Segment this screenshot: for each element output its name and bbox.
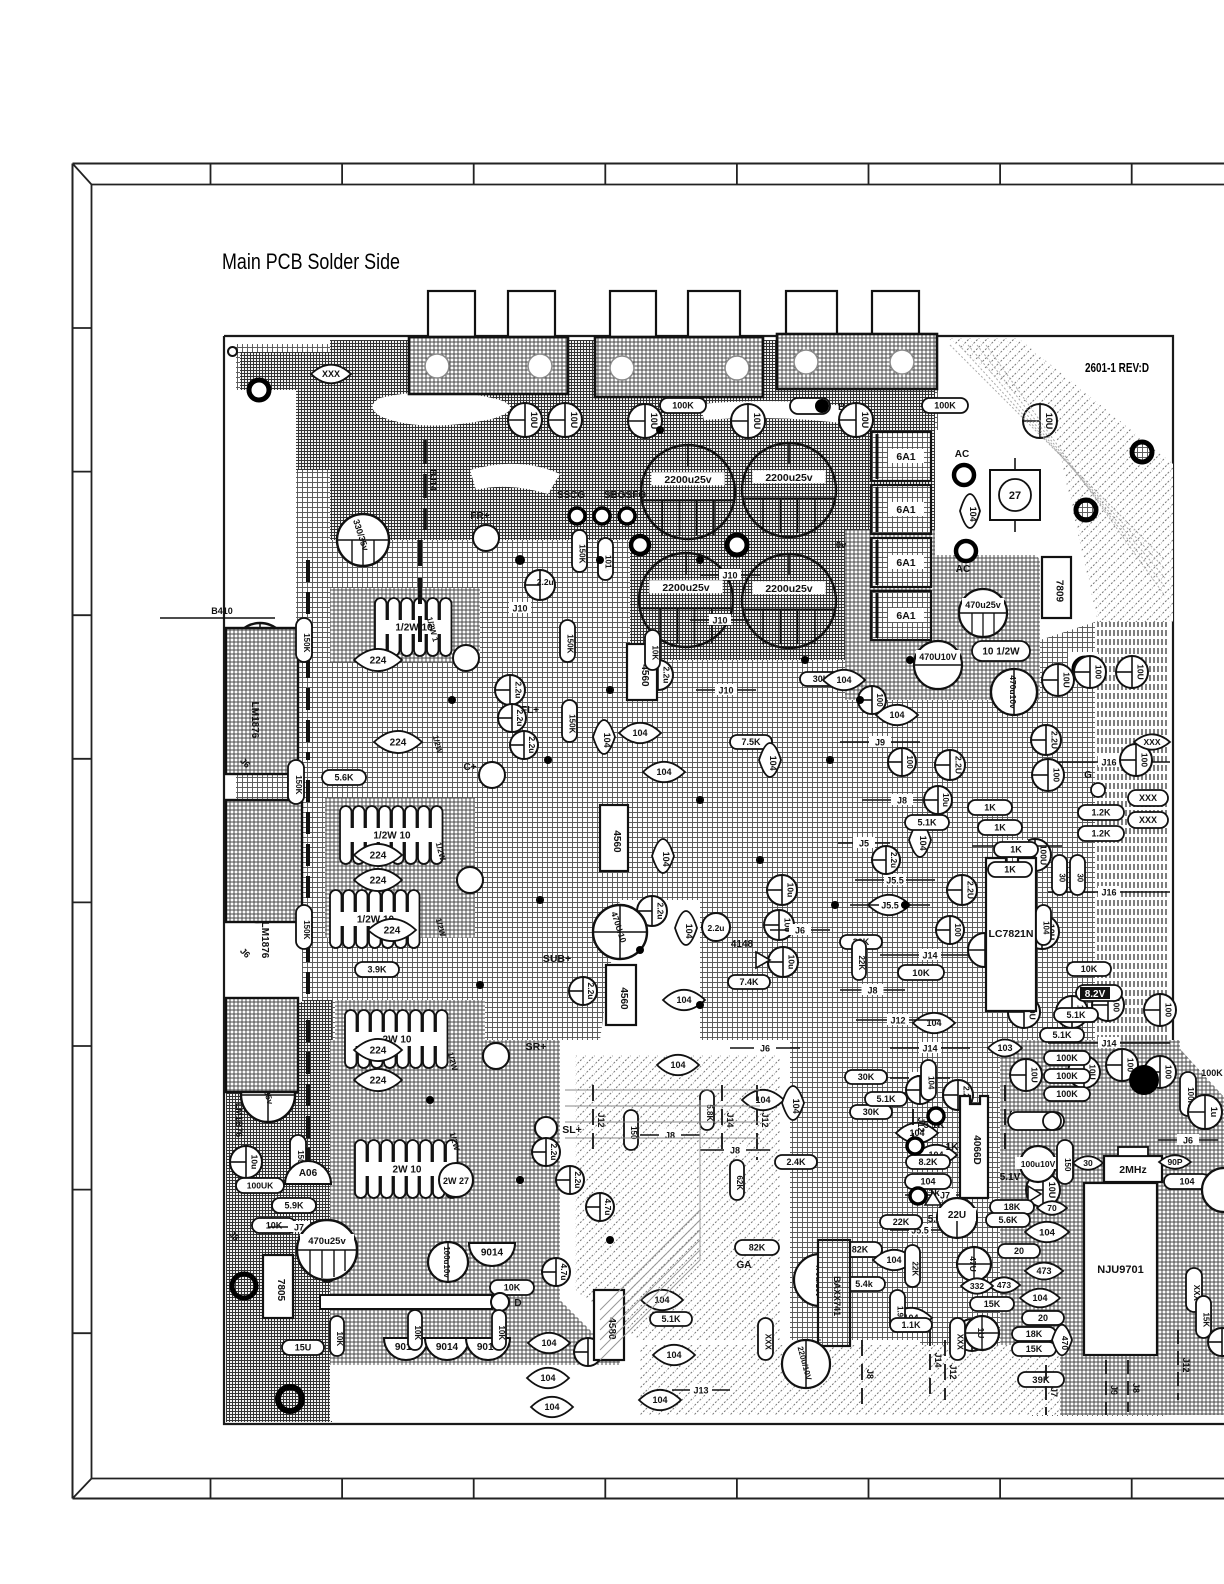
svg-text:4148: 4148	[731, 939, 754, 950]
copper pour bottom mid-left	[330, 1040, 620, 1370]
lens 104 logic c	[1020, 1289, 1060, 1308]
via right area 2	[1076, 500, 1096, 520]
svg-text:J8: J8	[1131, 1383, 1141, 1393]
jumper J12 bottom	[944, 1340, 946, 1400]
capacitor 2200u25v C1	[641, 445, 735, 539]
capacitor 4.7u a	[586, 1193, 614, 1221]
copper pour fuse column	[845, 530, 1040, 700]
jumper J12 vertical b	[912, 1085, 914, 1165]
svg-text:2MHz: 2MHz	[1119, 1164, 1146, 1176]
capacitor 10U top row #4	[731, 404, 765, 438]
svg-text:2.2u: 2.2u	[537, 577, 554, 587]
capacitor 104 #1	[593, 720, 615, 754]
svg-text:100K: 100K	[672, 401, 694, 411]
capacitor 10U right #7	[1008, 996, 1040, 1028]
resistor 10K mid	[645, 630, 660, 670]
svg-text:10U: 10U	[860, 412, 870, 429]
svg-text:AC: AC	[956, 564, 970, 575]
resistor 6.2K a	[730, 1160, 744, 1200]
transistor A06	[285, 1161, 331, 1184]
svg-text:100K: 100K	[1201, 1068, 1223, 1078]
jumper B410 horizontal	[160, 617, 275, 619]
resistor 100UK	[236, 1178, 284, 1193]
svg-text:104: 104	[676, 995, 691, 1005]
trace bundle bottom pocket	[565, 1089, 760, 1091]
capacitor 100 right #4	[1032, 759, 1064, 791]
svg-text:5.6K: 5.6K	[334, 773, 354, 783]
resistor 22K a	[852, 940, 866, 980]
capacitor 470U/10 center	[593, 905, 647, 959]
svg-text:2200u25v: 2200u25v	[664, 474, 711, 486]
svg-text:150K: 150K	[302, 633, 311, 652]
copper pour right-mid vertical bus	[1040, 525, 1168, 1041]
svg-text:15U: 15U	[295, 1343, 312, 1353]
svg-text:1.2K: 1.2K	[1091, 829, 1111, 839]
svg-text:10K: 10K	[651, 645, 660, 660]
resistor 18K logic b	[1012, 1327, 1056, 1341]
resistor 22K bottom c	[880, 1215, 922, 1229]
capacitor 2200u25v C3	[639, 553, 733, 647]
fuse 6A1 #2	[871, 485, 931, 534]
resistor 30K b	[840, 935, 882, 949]
resistor 1K c	[994, 842, 1038, 857]
svg-text:10U: 10U	[569, 412, 579, 429]
resistor 10K right b	[1067, 962, 1111, 976]
svg-text:15K: 15K	[1026, 1344, 1043, 1354]
svg-text:470u25v: 470u25v	[965, 600, 1001, 610]
svg-text:J12: J12	[948, 1364, 958, 1379]
transistor 9014 b	[384, 1338, 428, 1360]
svg-text:J8: J8	[897, 796, 907, 806]
svg-text:4.7u: 4.7u	[559, 1263, 569, 1280]
SSCG vias	[569, 508, 585, 524]
resistor array 1/2W 10 row2	[340, 806, 352, 864]
svg-text:J10: J10	[718, 686, 733, 696]
svg-text:101: 101	[604, 555, 613, 569]
svg-text:473: 473	[1036, 1266, 1051, 1276]
svg-text:470u10v: 470u10v	[1008, 675, 1018, 709]
svg-text:J10: J10	[712, 616, 727, 626]
XXX box c	[1012, 1034, 1014, 1036]
XXX box overflow	[1186, 1268, 1202, 1312]
trace lines bottom center	[600, 1100, 700, 1310]
capacitor 470u25v bottom	[297, 1220, 357, 1280]
capacitor 2200u25v C2	[742, 443, 836, 537]
capacitor 10U mid b	[1025, 915, 1059, 949]
svg-text:47U: 47U	[968, 1256, 978, 1272]
via ring bottom-left	[278, 1387, 302, 1411]
diagonal traces center-bottom	[575, 1055, 780, 1340]
IC 4560 c	[606, 965, 636, 1025]
svg-text:10U: 10U	[752, 413, 762, 430]
svg-text:30K: 30K	[858, 1072, 875, 1082]
capacitor 2.2u right b	[935, 750, 965, 780]
svg-text:22K: 22K	[911, 1261, 920, 1276]
svg-text:27: 27	[1009, 490, 1021, 502]
capacitor 104 AC	[960, 494, 980, 528]
resistor 10K d	[490, 1280, 534, 1295]
svg-text:XXX: XXX	[1139, 815, 1157, 825]
capacitor 104 #10	[876, 705, 918, 725]
svg-text:8.2V: 8.2V	[1085, 989, 1106, 1000]
capacitor 104 #19	[890, 1308, 932, 1328]
RCA jack tab 2	[508, 291, 555, 337]
svg-text:473: 473	[997, 1280, 1011, 1290]
capacitor 100 right #5	[1120, 744, 1152, 776]
capacitor 2.2u b	[495, 675, 525, 705]
jumper J9 link #14	[890, 1077, 950, 1079]
svg-text:A06: A06	[299, 1168, 318, 1179]
svg-text:J14: J14	[933, 1352, 943, 1367]
XXX box a	[1128, 790, 1168, 806]
svg-text:30: 30	[1058, 873, 1067, 882]
trace lines top right corner	[950, 345, 1165, 560]
via dots scattered	[448, 696, 456, 704]
svg-text:104: 104	[602, 733, 612, 748]
lens 470 logic	[1052, 1325, 1072, 1356]
svg-text:100: 100	[1164, 1065, 1174, 1079]
svg-text:150K: 150K	[566, 634, 575, 653]
jumper J14 link #13	[890, 1047, 970, 1049]
jumper J7 above LC7821N	[972, 845, 1062, 847]
svg-text:1u: 1u	[1209, 1107, 1219, 1118]
IC 4066D	[960, 1096, 988, 1198]
svg-text:103: 103	[997, 1043, 1012, 1053]
via ring 7805	[232, 1274, 256, 1298]
resistor 150K center c	[562, 700, 577, 742]
jumper J10 link #4	[519, 607, 521, 609]
svg-text:5.1V: 5.1V	[1000, 1172, 1021, 1183]
svg-text:1K: 1K	[984, 803, 996, 813]
svg-text:15K: 15K	[1202, 1312, 1211, 1327]
resistor 5.1K right a	[905, 815, 949, 830]
capacitor 220u/10V bottom	[782, 1340, 830, 1388]
diode triangle logic	[1028, 1186, 1041, 1202]
capacitor 104 #8	[759, 743, 781, 777]
jumper J7 bottom-left	[268, 1226, 330, 1228]
jumper J8 link #16	[700, 1149, 770, 1151]
diode 8.2V	[1076, 985, 1122, 1001]
svg-text:104: 104	[666, 1350, 681, 1360]
jumper J8 bottom right	[861, 1340, 863, 1408]
resistor 3.9K	[355, 962, 399, 977]
svg-text:9014: 9014	[481, 1248, 504, 1259]
jumper BJ14 vertical	[418, 540, 422, 650]
capacitor 47U logic	[957, 1247, 991, 1281]
copper pour bottom-left cap area	[290, 1205, 570, 1366]
jumper J12 link #12	[856, 1019, 940, 1021]
svg-text:J14: J14	[1101, 1039, 1116, 1049]
copper pour bottom center	[780, 1040, 1000, 1410]
resistor 15K logic	[970, 1297, 1014, 1311]
svg-text:100: 100	[953, 923, 962, 937]
capacitor 2.2u e	[643, 660, 673, 690]
svg-text:10U: 10U	[1044, 413, 1054, 430]
jumper J5.5 link #9	[850, 904, 930, 906]
copper pour bottom-left column	[226, 1000, 332, 1422]
resistor 100K col c	[1044, 1087, 1090, 1101]
svg-text:1K: 1K	[946, 1142, 960, 1153]
resistor 18K	[990, 1200, 1034, 1214]
capacitor 224 #3	[354, 844, 402, 866]
capacitor 104 #16	[896, 1123, 938, 1143]
svg-text:5.4k: 5.4k	[855, 1279, 874, 1289]
svg-text:BAXX741: BAXX741	[832, 1276, 842, 1316]
jumper J12 logic right	[1177, 1330, 1179, 1400]
capacitor 330u/35v	[337, 514, 389, 566]
jumper J12 vertical a	[756, 1085, 758, 1160]
copper pour around filter caps	[620, 520, 850, 660]
capacitor 104 #17	[915, 1145, 957, 1165]
svg-text:NJU9701: NJU9701	[1097, 1264, 1143, 1276]
jumper J5.5 link #18	[890, 1229, 950, 1231]
svg-text:470u25v: 470u25v	[308, 1236, 346, 1247]
bold jumper wire BJ12	[306, 780, 310, 1000]
resistor 5.6K	[322, 770, 366, 785]
svg-text:B: B	[838, 402, 845, 413]
IC BAXX741	[818, 1240, 850, 1346]
regulator 7809	[1042, 557, 1071, 618]
capacitor 1u overflow	[1188, 1095, 1222, 1129]
resistor 10 1/2W	[972, 641, 1030, 661]
capacitor 10u cluster c	[924, 786, 952, 814]
svg-text:J5.5: J5.5	[886, 876, 904, 886]
svg-text:B410: B410	[211, 606, 233, 616]
svg-text:100K: 100K	[934, 401, 956, 411]
resistor 39K logic	[1018, 1372, 1064, 1387]
resistor 20 logic b	[1022, 1311, 1064, 1325]
fuse 6A1 #1	[871, 432, 931, 481]
svg-text:10K: 10K	[266, 1221, 283, 1231]
svg-text:2601-1 REV:D: 2601-1 REV:D	[1085, 360, 1149, 375]
connector LM1876 block C	[226, 998, 298, 1092]
svg-text:SSCG: SSCG	[557, 490, 586, 501]
resistor 104 right stad	[1036, 905, 1051, 945]
capacitor 2.2u g	[702, 913, 730, 941]
diag traces bottom strip	[640, 1345, 1060, 1415]
trimmer 27	[990, 470, 1040, 520]
svg-text:2.2u: 2.2u	[661, 666, 671, 683]
capacitor 224 #4	[354, 869, 402, 891]
capacitor 224 #5	[368, 919, 416, 941]
resistor 22K bottom b	[905, 1245, 920, 1287]
svg-text:5.1K: 5.1K	[917, 818, 937, 828]
svg-text:FR+: FR+	[470, 511, 489, 522]
svg-text:5.9K: 5.9K	[284, 1201, 304, 1211]
svg-text:6A1: 6A1	[896, 557, 915, 569]
resistor 82K b	[838, 1242, 882, 1257]
svg-text:62K: 62K	[735, 1175, 744, 1190]
XXX box b	[1128, 812, 1168, 828]
svg-text:82K: 82K	[852, 1245, 869, 1255]
capacitor 100 right #2	[1074, 656, 1106, 688]
pad J6 overflow	[1158, 1139, 1218, 1141]
svg-text:1/2W 10: 1/2W 10	[373, 831, 411, 842]
capacitor 1U bottom right	[956, 1319, 988, 1351]
sheet border frame	[73, 163, 1224, 165]
capacitor 10U right #1	[1042, 664, 1074, 696]
jumper J7 logic	[1045, 1365, 1047, 1415]
copper pour base	[236, 344, 1175, 1416]
capacitor 2.2u right a	[1031, 725, 1061, 755]
svg-text:100: 100	[905, 755, 914, 769]
svg-text:0v: 0v	[836, 540, 846, 550]
capacitor 22Ou/1OV	[794, 1254, 846, 1306]
trace channel top band c	[470, 464, 560, 494]
capacitor 104 #7	[657, 1055, 699, 1075]
resistor 150Q	[624, 1110, 638, 1150]
resistor 5.1K c	[650, 1312, 692, 1326]
svg-text:2.2U: 2.2U	[953, 756, 963, 774]
svg-text:2.2U: 2.2U	[1049, 731, 1059, 749]
connector LM1876 block A	[226, 628, 298, 774]
bare board left margin	[226, 390, 302, 1002]
svg-text:104: 104	[920, 1177, 935, 1187]
jumper BJ14 top	[423, 440, 427, 530]
svg-text:100u10V: 100u10V	[1021, 1159, 1056, 1169]
XXX stad logic	[950, 1318, 965, 1360]
svg-text:100: 100	[1140, 753, 1150, 767]
svg-text:6A1: 6A1	[896, 610, 915, 622]
resistor 62K b	[735, 1457, 737, 1459]
svg-text:SR+: SR+	[526, 1041, 547, 1053]
capacitor 22U	[937, 1198, 977, 1238]
svg-text:LM1876: LM1876	[259, 922, 270, 959]
svg-text:J12: J12	[760, 1112, 770, 1127]
jumper J8 logic	[1127, 1360, 1129, 1412]
capacitor 104 #9	[823, 670, 865, 690]
svg-text:6A1: 6A1	[896, 451, 915, 463]
svg-text:SL+: SL+	[562, 1124, 582, 1136]
svg-text:7805: 7805	[275, 1279, 286, 1302]
resistor 10K g	[492, 1310, 506, 1350]
resistor 22K bottom-left	[320, 1240, 335, 1282]
capacitor 104 logic	[905, 1174, 951, 1189]
resistor 1K bottom	[890, 1318, 932, 1332]
svg-text:20: 20	[1014, 1246, 1024, 1256]
svg-text:4.7u: 4.7u	[603, 1198, 613, 1215]
svg-text:104: 104	[968, 507, 978, 522]
svg-text:XXX: XXX	[956, 1334, 965, 1351]
capacitor 10U right #11	[1010, 1059, 1042, 1091]
resistor 150K left a	[296, 618, 312, 662]
capacitor 100 cluster b	[888, 748, 916, 776]
SL+ pad	[535, 1117, 557, 1139]
svg-text:2.2u: 2.2u	[655, 902, 665, 919]
capacitor 100u10V logic	[1020, 1146, 1056, 1182]
svg-text:6A1: 6A1	[896, 504, 915, 516]
svg-text:1.1K: 1.1K	[901, 1320, 921, 1330]
svg-text:15K: 15K	[984, 1299, 1001, 1309]
resistor 5.1K mid	[865, 1092, 907, 1106]
svg-text:5.1K: 5.1K	[661, 1314, 681, 1324]
svg-text:10U: 10U	[1062, 672, 1072, 688]
svg-text:150K: 150K	[568, 714, 577, 733]
svg-text:J6: J6	[795, 926, 805, 936]
svg-text:150K: 150K	[302, 920, 311, 939]
resistor 82K	[735, 1240, 779, 1255]
connector block CN1	[409, 337, 568, 394]
svg-text:100u10v: 100u10v	[442, 1246, 451, 1278]
svg-text:104: 104	[889, 710, 904, 720]
resistor 5.6K logic	[986, 1213, 1030, 1227]
svg-text:150K: 150K	[578, 544, 587, 563]
capacitor 104 #11	[909, 823, 931, 857]
capacitor 100 mid trio b	[764, 910, 794, 940]
capacitor 2.2u right c	[947, 875, 977, 905]
svg-text:J9: J9	[875, 738, 885, 748]
resistor 30K d	[850, 1105, 892, 1119]
connector block CN3	[777, 334, 937, 389]
capacitor 2.2u j	[556, 1166, 584, 1194]
svg-text:5.1K: 5.1K	[1052, 1030, 1072, 1040]
capacitor 470u10v 2	[991, 669, 1037, 715]
capacitor 224 #1	[354, 649, 402, 671]
svg-text:100K: 100K	[1056, 1089, 1078, 1099]
bare board bottom strip	[330, 1340, 1030, 1422]
IC 4580 bottom	[594, 1290, 624, 1360]
svg-text:104: 104	[1179, 1177, 1194, 1187]
svg-text:18K: 18K	[1026, 1329, 1043, 1339]
capacitor 104 #14	[742, 1090, 784, 1110]
svg-text:22U: 22U	[948, 1210, 966, 1221]
via left of caps	[631, 536, 649, 554]
svg-text:J9: J9	[1109, 1385, 1119, 1395]
resistor 20 logic	[998, 1244, 1040, 1258]
jumper J8 link #6	[862, 799, 942, 801]
transistor 9014 c	[425, 1338, 469, 1360]
IC LC7821N	[986, 858, 1036, 1011]
svg-text:7809: 7809	[1054, 580, 1065, 603]
capacitor 100 right #13	[1106, 1049, 1138, 1081]
RCA jack tab 3	[610, 291, 656, 337]
resistor 150K center	[572, 530, 587, 572]
svg-text:2200u25v: 2200u25v	[765, 472, 812, 484]
svg-text:2.2u: 2.2u	[586, 982, 596, 999]
resistor 5.9K	[272, 1198, 316, 1213]
svg-text:9014: 9014	[436, 1342, 459, 1353]
capacitor 104 bottom a	[527, 1368, 569, 1388]
svg-text:104: 104	[918, 836, 928, 851]
svg-text:8.2K: 8.2K	[918, 1157, 938, 1167]
svg-text:2.2u: 2.2u	[513, 681, 523, 698]
resistor 7.5K	[730, 735, 772, 749]
svg-text:XXX: XXX	[1139, 793, 1157, 803]
svg-text:470U10V: 470U10V	[919, 652, 957, 662]
svg-text:XXX: XXX	[322, 369, 340, 379]
bold jumper wire BJ10 lower	[306, 1020, 310, 1170]
resistor 150K center b	[560, 620, 575, 662]
svg-text:224: 224	[370, 1046, 387, 1057]
capacitor 104 #5	[675, 911, 697, 945]
capacitor 2.2u c	[498, 704, 526, 732]
fuse 6A1 #4	[871, 591, 931, 640]
svg-text:10u: 10u	[785, 883, 795, 898]
RCA jack tab 1	[428, 291, 475, 337]
XXX lens right	[1134, 734, 1170, 749]
svg-text:104: 104	[1042, 921, 1051, 935]
svg-text:100UK: 100UK	[247, 1180, 274, 1190]
capacitor 1U logic	[965, 1316, 999, 1350]
jumper J14 link #10	[880, 954, 980, 956]
capacitor 104 #15	[782, 1086, 804, 1120]
svg-text:150: 150	[1063, 1158, 1072, 1172]
svg-text:10U: 10U	[1030, 1067, 1040, 1083]
capacitor 104 #21	[653, 1345, 695, 1365]
svg-text:10K: 10K	[912, 968, 930, 979]
lens 104 logic big	[1025, 1222, 1069, 1242]
svg-text:J12: J12	[890, 1016, 905, 1026]
